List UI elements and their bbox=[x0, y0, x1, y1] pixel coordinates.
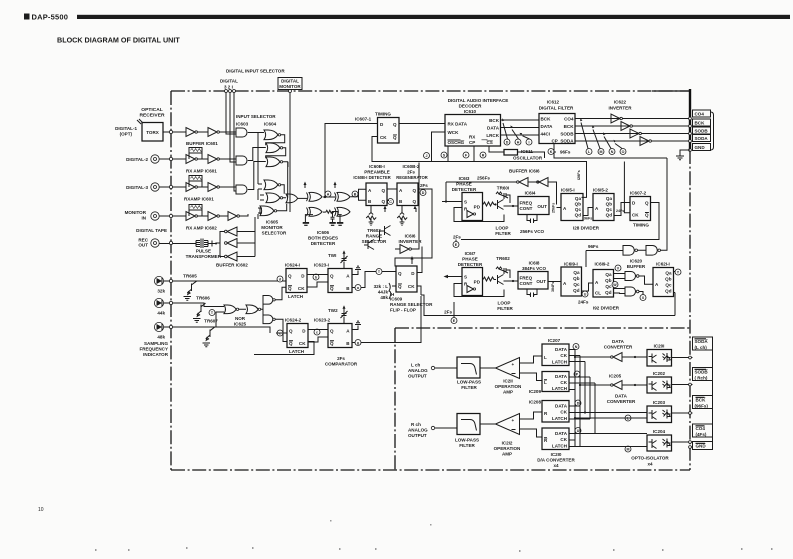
nand gate 96fs 1 bbox=[623, 246, 634, 256]
svg-text:TR606: TR606 bbox=[196, 296, 210, 301]
svg-text:IC208: IC208 bbox=[529, 400, 542, 405]
svg-text:DIGITAL FILTER: DIGITAL FILTER bbox=[539, 106, 574, 111]
svg-text:SODB: SODB bbox=[560, 132, 574, 137]
node V bbox=[615, 265, 621, 271]
svg-text:INPUT SELECTOR: INPUT SELECTOR bbox=[236, 114, 276, 119]
svg-text:IC6I9-I: IC6I9-I bbox=[564, 262, 578, 267]
border top last dash solid bbox=[652, 90, 690, 92]
svg-text:IC624-2: IC624-2 bbox=[285, 318, 302, 323]
label GND bbox=[693, 144, 711, 151]
arrow ref D bbox=[503, 123, 508, 139]
svg-text:Q: Q bbox=[393, 122, 397, 127]
inverter 3 bbox=[630, 129, 639, 138]
and gate IC603 a bbox=[236, 128, 247, 137]
node c bbox=[314, 329, 320, 335]
svg-text:96Fs: 96Fs bbox=[560, 150, 571, 155]
svg-text:PD: PD bbox=[474, 205, 481, 210]
svg-text:44CI: 44CI bbox=[541, 132, 551, 137]
selector output node wire to right bbox=[298, 197, 307, 199]
wire tr601 to ic614 bbox=[504, 205, 519, 207]
svg-text:ANALOG: ANALOG bbox=[408, 368, 428, 373]
svg-text:REGENERATOR: REGENERATOR bbox=[396, 175, 428, 180]
svg-text:FILTER: FILTER bbox=[497, 306, 513, 311]
svg-text:D: D bbox=[506, 140, 509, 144]
svg-text:CO4: CO4 bbox=[564, 117, 574, 122]
svg-text:L: L bbox=[544, 380, 547, 385]
svg-text:LATCH: LATCH bbox=[552, 444, 567, 449]
buffer triangle b1 left bbox=[519, 178, 528, 187]
svg-text:D: D bbox=[577, 401, 580, 405]
transistor TR607 bbox=[209, 330, 211, 338]
wires conv2 bbox=[580, 384, 647, 386]
bus verticals latch to optos bbox=[569, 350, 595, 447]
svg-text:IC205: IC205 bbox=[609, 374, 622, 379]
wire D input from selector bbox=[325, 124, 378, 198]
wire ic608-1 q to ic608-2 bbox=[387, 189, 397, 201]
svg-text:CO4: CO4 bbox=[695, 112, 705, 117]
svg-text:N: N bbox=[575, 345, 578, 349]
svg-text:SODA: SODA bbox=[695, 339, 709, 344]
IC624-2 box bbox=[287, 324, 308, 348]
svg-text:d: d bbox=[279, 277, 281, 281]
svg-text:Q: Q bbox=[288, 274, 292, 279]
svg-text:SODA: SODA bbox=[695, 136, 709, 141]
supply arrows ic606 bbox=[305, 184, 335, 188]
svg-text:IC207: IC207 bbox=[548, 338, 561, 343]
svg-text:IC612: IC612 bbox=[547, 100, 560, 105]
svg-text:Qc: Qc bbox=[606, 207, 613, 212]
svg-text:DETECTER: DETECTER bbox=[458, 262, 483, 267]
svg-text:OUT: OUT bbox=[537, 204, 547, 209]
svg-text:384Fs VCO: 384Fs VCO bbox=[522, 266, 546, 271]
svg-text:SODB: SODB bbox=[695, 370, 709, 375]
svg-text:Q: Q bbox=[645, 213, 649, 218]
IC609 box bbox=[396, 266, 417, 292]
svg-text:TWI: TWI bbox=[328, 253, 336, 258]
svg-text:OUTPUT: OUTPUT bbox=[408, 374, 427, 379]
nand gate ic620 b bbox=[625, 287, 636, 296]
node D3 bbox=[575, 400, 581, 406]
wire 619-1 to 619-2 bbox=[582, 283, 594, 291]
IC618 box bbox=[518, 272, 548, 290]
svg-text:IC2I2: IC2I2 bbox=[502, 441, 513, 446]
svg-text:2Fs: 2Fs bbox=[407, 170, 415, 175]
label BCK bbox=[693, 119, 711, 126]
label BCK 96Fs bbox=[693, 396, 713, 409]
svg-text:IC2II: IC2II bbox=[503, 379, 513, 384]
svg-text:DATA: DATA bbox=[487, 126, 500, 131]
cap under ic614 bbox=[527, 215, 537, 224]
oscillator IC611 resistor bbox=[504, 150, 518, 156]
svg-text:IC6I6: IC6I6 bbox=[405, 234, 416, 239]
op amp IC211 bbox=[496, 358, 520, 379]
buffer IC602 triangle 3 (left pointing) bbox=[227, 252, 237, 261]
small or gate output bbox=[286, 194, 298, 203]
svg-text:LOOP: LOOP bbox=[496, 226, 509, 231]
node U2 bbox=[575, 428, 581, 434]
svg-text:BCK: BCK bbox=[564, 124, 575, 129]
overline marks bbox=[288, 135, 706, 443]
xor gate 2 bbox=[335, 192, 351, 201]
IC607-2 box bbox=[630, 197, 651, 221]
svg-text:K: K bbox=[550, 150, 553, 154]
2fs wire lower bbox=[453, 302, 455, 317]
svg-text:RANGE: RANGE bbox=[366, 234, 382, 239]
svg-text:Q: Q bbox=[289, 329, 293, 334]
and gate c bbox=[263, 296, 273, 305]
rx amp 1 feedback resistor bbox=[189, 148, 202, 154]
svg-text:TR60I: TR60I bbox=[497, 186, 509, 191]
output bus SODB bbox=[575, 133, 690, 135]
svg-text:CK: CK bbox=[632, 213, 639, 218]
svg-text:CP: CP bbox=[469, 140, 475, 145]
monitor selector gate 3 bbox=[260, 206, 274, 216]
svg-text:32k: 32k bbox=[157, 289, 165, 294]
wire latch2 ck loop bbox=[254, 342, 314, 355]
svg-text:IC204: IC204 bbox=[653, 429, 666, 434]
long 128fs line bbox=[372, 162, 587, 198]
nor gate IC604 3 bbox=[266, 157, 280, 167]
svg-text:AMP: AMP bbox=[503, 390, 513, 395]
IC624-1 box bbox=[286, 269, 307, 293]
svg-text:OPTICAL: OPTICAL bbox=[141, 107, 162, 113]
svg-text:CK: CK bbox=[408, 284, 415, 289]
monitor selector gate 2 bbox=[266, 193, 280, 203]
rx amp IC601 triangle pair row3 bbox=[186, 183, 195, 192]
svg-text:BUFFER IC6I6: BUFFER IC6I6 bbox=[509, 169, 540, 174]
opto ic204 internals bbox=[649, 439, 671, 449]
wire CP down to 96fs line bbox=[554, 144, 667, 159]
node A bbox=[325, 191, 331, 197]
svg-text:Q: Q bbox=[330, 286, 334, 291]
svg-text:2Fs: 2Fs bbox=[337, 356, 345, 361]
svg-text:IC60B-I DETECTER: IC60B-I DETECTER bbox=[353, 175, 390, 180]
svg-text:BCK: BCK bbox=[541, 117, 552, 122]
wire 44k bbox=[164, 303, 224, 307]
low-pass filter 2 box bbox=[457, 414, 480, 435]
svg-text:PREAMBLE: PREAMBLE bbox=[364, 170, 390, 175]
svg-text:DIGITAL-3: DIGITAL-3 bbox=[126, 185, 148, 190]
svg-text:GND: GND bbox=[695, 145, 706, 150]
svg-text:DATA: DATA bbox=[555, 404, 568, 409]
svg-text:D/A CONVERTER: D/A CONVERTER bbox=[537, 458, 575, 463]
DIGITAL-2 connector bbox=[151, 155, 159, 163]
wire IC603a to IC604 bbox=[248, 132, 264, 134]
ic620 wires bbox=[614, 274, 654, 295]
svg-text:Qc: Qc bbox=[573, 282, 580, 287]
monitor vertical bbox=[289, 93, 291, 213]
svg-text:CO4: CO4 bbox=[696, 426, 706, 431]
svg-text:CK: CK bbox=[560, 437, 567, 442]
wire 48k bbox=[164, 326, 210, 328]
svg-text:OSCHG: OSCHG bbox=[448, 140, 465, 145]
svg-text:DIGITAL-2: DIGITAL-2 bbox=[126, 157, 148, 162]
svg-text:DIGITAL: DIGITAL bbox=[281, 79, 299, 84]
svg-text:MONITOR: MONITOR bbox=[261, 225, 283, 230]
wire 32k bbox=[164, 280, 286, 282]
nand gate ic620 a bbox=[625, 272, 636, 281]
node K bbox=[548, 149, 554, 155]
selector output vertical bbox=[283, 162, 288, 198]
svg-text:CK: CK bbox=[299, 341, 306, 346]
svg-text:C: C bbox=[389, 200, 392, 204]
svg-text:TR603: TR603 bbox=[367, 228, 381, 233]
svg-text:TIMING: TIMING bbox=[375, 112, 391, 117]
svg-text:Qd: Qd bbox=[573, 288, 580, 293]
svg-text:Qa: Qa bbox=[573, 270, 580, 275]
wire ic608-2 q out bbox=[395, 189, 432, 266]
IC619-2 box bbox=[593, 270, 614, 298]
svg-text:LOW-PASS: LOW-PASS bbox=[457, 380, 481, 385]
svg-text:Qd: Qd bbox=[606, 213, 613, 218]
border left bbox=[170, 91, 172, 470]
svg-text:RX: RX bbox=[469, 135, 475, 140]
wire 48k to latch2 bbox=[210, 327, 287, 333]
svg-text:DATA: DATA bbox=[555, 347, 568, 352]
svg-text:Qb: Qb bbox=[573, 276, 580, 281]
svg-text:TRANSFORMER: TRANSFORMER bbox=[186, 254, 222, 259]
svg-text:TW2: TW2 bbox=[328, 308, 338, 313]
wire CS to oscillator bbox=[489, 146, 504, 152]
svg-text:PHASE: PHASE bbox=[456, 182, 472, 187]
IC608-2 box bbox=[397, 183, 418, 206]
svg-text:Q: Q bbox=[381, 188, 385, 193]
svg-text:24Fs: 24Fs bbox=[616, 209, 624, 213]
tr601 rc top bbox=[496, 192, 510, 203]
svg-text:RX DATA: RX DATA bbox=[448, 122, 468, 127]
svg-text:IN: IN bbox=[141, 216, 146, 221]
svg-text:Q: Q bbox=[398, 284, 402, 289]
ground 623-2 bbox=[352, 321, 361, 329]
label CO4 bbox=[693, 110, 711, 117]
svg-text:TIMING: TIMING bbox=[633, 223, 649, 228]
IC613 phase detector box bbox=[462, 193, 483, 221]
svg-text:Qb: Qb bbox=[606, 202, 613, 207]
REC OUT connector bbox=[151, 239, 159, 247]
svg-text:OUTPUT: OUTPUT bbox=[408, 433, 427, 438]
svg-text:c: c bbox=[316, 330, 318, 334]
svg-text:256Fs: 256Fs bbox=[552, 203, 556, 213]
svg-text:LATCH: LATCH bbox=[552, 360, 567, 365]
svg-text:CL: CL bbox=[595, 291, 601, 296]
svg-text:LATCH: LATCH bbox=[552, 386, 567, 391]
svg-text:48k: 48k bbox=[157, 335, 165, 340]
svg-text:BUFFER IC601: BUFFER IC601 bbox=[186, 141, 218, 146]
nodes on border bbox=[225, 90, 228, 93]
svg-text:INVERTER: INVERTER bbox=[609, 106, 633, 111]
svg-text:Qc: Qc bbox=[605, 284, 612, 289]
nor gate a bbox=[224, 305, 236, 314]
node on border bbox=[169, 130, 172, 133]
rx amp IC601 triangle pair row2 bbox=[186, 155, 195, 164]
svg-text:Qa: Qa bbox=[575, 196, 582, 201]
arrow ref M bbox=[593, 130, 600, 149]
TORX box bbox=[142, 123, 163, 142]
xor gate 1 bbox=[307, 192, 323, 201]
svg-text:M: M bbox=[627, 447, 630, 451]
opto IC201 box bbox=[647, 350, 672, 367]
svg-text:DIGITAL-1: DIGITAL-1 bbox=[115, 126, 137, 131]
wire 621 out bottom bbox=[421, 295, 675, 316]
svg-text:IC203: IC203 bbox=[653, 400, 666, 405]
LED 48k bbox=[154, 322, 163, 331]
svg-text:IC6I5-2: IC6I5-2 bbox=[593, 188, 608, 193]
nor gate IC604 2 bbox=[266, 143, 280, 153]
nor gate b bbox=[246, 305, 258, 314]
svg-text:NOR: NOR bbox=[235, 316, 246, 321]
wire opto outputs to border bbox=[672, 358, 693, 448]
svg-text:LATCH: LATCH bbox=[552, 416, 567, 421]
node dots on border bbox=[689, 117, 692, 120]
svg-text:RANGE SELECTOR: RANGE SELECTOR bbox=[390, 302, 433, 307]
svg-text:OPTO-ISOLATOR: OPTO-ISOLATOR bbox=[631, 456, 669, 461]
svg-text:LATCH: LATCH bbox=[289, 349, 304, 354]
svg-text:44k: 44k bbox=[157, 311, 165, 316]
rx amp IC602 feedback resistor bbox=[189, 205, 202, 211]
svg-text:256Fs VCO: 256Fs VCO bbox=[520, 229, 544, 234]
and gate d bbox=[263, 315, 273, 324]
svg-text:CONT: CONT bbox=[520, 206, 533, 211]
torx input squiggle bbox=[137, 119, 143, 124]
svg-text:W: W bbox=[613, 283, 617, 287]
svg-text:IC623-I: IC623-I bbox=[314, 263, 329, 268]
svg-text:S: S bbox=[464, 200, 467, 205]
node a bbox=[355, 285, 361, 291]
svg-text:U: U bbox=[584, 292, 587, 296]
svg-text:IC625: IC625 bbox=[234, 322, 247, 327]
svg-text:Q: Q bbox=[381, 199, 385, 204]
wires 624-1 to 623-1 bbox=[307, 275, 328, 288]
svg-text:LATCH: LATCH bbox=[288, 294, 303, 299]
IC608-1 box bbox=[366, 183, 387, 206]
svg-text:Q: Q bbox=[330, 341, 334, 346]
svg-text:BCK: BCK bbox=[695, 121, 706, 126]
opto IC202 box bbox=[647, 377, 672, 393]
svg-text:DATA: DATA bbox=[555, 374, 568, 379]
wire oscillator to ic612 bbox=[518, 152, 545, 158]
svg-text:Qb: Qb bbox=[665, 277, 672, 282]
inverter 4 bbox=[640, 137, 649, 146]
svg-text:SODB: SODB bbox=[695, 129, 709, 134]
svg-text:DETECTER: DETECTER bbox=[452, 187, 477, 192]
svg-text:Q: Q bbox=[412, 199, 416, 204]
transistor TR601 bbox=[498, 194, 509, 210]
svg-text:DATA: DATA bbox=[615, 394, 628, 399]
svg-text:2Fs: 2Fs bbox=[420, 183, 428, 188]
node U bbox=[582, 291, 588, 297]
opto IC204 box bbox=[647, 435, 672, 451]
ground 623-1 bbox=[352, 266, 361, 274]
svg-text:CK: CK bbox=[298, 286, 305, 291]
svg-text:S: S bbox=[464, 275, 467, 280]
header bar bbox=[77, 15, 790, 19]
xor gate 4 bbox=[335, 207, 351, 216]
svg-text:IC6I3: IC6I3 bbox=[459, 176, 470, 181]
svg-text:IC6I8: IC6I8 bbox=[529, 261, 540, 266]
svg-text:BUFFER: BUFFER bbox=[627, 264, 646, 269]
svg-text:IC6I9-2: IC6I9-2 bbox=[595, 262, 610, 267]
node N2 bbox=[573, 344, 579, 350]
svg-text:g: g bbox=[357, 341, 359, 345]
svg-text:384Fs: 384Fs bbox=[551, 282, 555, 292]
monitor selector gate 1 bbox=[264, 180, 278, 190]
tr606 ground bbox=[193, 319, 201, 323]
svg-text:DETECTER: DETECTER bbox=[311, 241, 336, 246]
wire E to latch L bbox=[541, 355, 543, 357]
svg-text:IC623-2: IC623-2 bbox=[314, 318, 331, 323]
pulse transformer bbox=[196, 241, 212, 247]
svg-text:+: + bbox=[512, 418, 515, 423]
svg-text:Q: Q bbox=[398, 271, 402, 276]
svg-text:IC607-2: IC607-2 bbox=[630, 191, 647, 196]
wire OSCHG down bbox=[447, 146, 449, 162]
node d bbox=[277, 276, 283, 282]
label GND low bbox=[693, 442, 713, 450]
IC615-1 box bbox=[561, 194, 583, 221]
svg-text:U: U bbox=[577, 429, 580, 433]
svg-text:IC620: IC620 bbox=[630, 259, 643, 264]
label SODA bbox=[693, 135, 711, 142]
svg-text:2Fs: 2Fs bbox=[444, 310, 452, 315]
svg-text:256Fs: 256Fs bbox=[477, 176, 490, 181]
R output node bbox=[431, 426, 434, 429]
svg-text:Qa: Qa bbox=[606, 196, 613, 201]
caps under ic608 bbox=[366, 206, 376, 226]
svg-text:32k : L: 32k : L bbox=[374, 284, 389, 289]
IC610 box bbox=[445, 115, 501, 147]
border right solid thick bbox=[689, 89, 691, 151]
svg-text:(4Fs): (4Fs) bbox=[696, 432, 707, 437]
buffer IC602 triangle 1 (left pointing) bbox=[227, 227, 237, 236]
caps and grounds ic606 bbox=[331, 212, 335, 222]
logo square bbox=[24, 14, 30, 20]
label SODB bbox=[693, 127, 711, 134]
svg-text:IC603: IC603 bbox=[236, 122, 249, 127]
node X bbox=[640, 295, 646, 301]
svg-text:MONITOR: MONITOR bbox=[279, 84, 301, 89]
IC208 box bbox=[542, 401, 569, 423]
junction pd bbox=[494, 203, 496, 205]
IC623-2 box bbox=[328, 324, 352, 348]
svg-text:DIGITAL: DIGITAL bbox=[220, 79, 238, 84]
svg-text:FREQ: FREQ bbox=[520, 276, 533, 281]
arrow ref N bbox=[604, 137, 611, 149]
IC612 box bbox=[539, 114, 575, 144]
wires 624-2 to 623-2 bbox=[308, 330, 328, 343]
node g bbox=[355, 340, 361, 346]
svg-text:Q: Q bbox=[393, 135, 397, 140]
node F bbox=[463, 152, 469, 158]
wires into ic608-1 bbox=[351, 189, 367, 200]
svg-text:FILTER: FILTER bbox=[459, 443, 475, 448]
internal buffer ic617 bbox=[467, 286, 474, 293]
svg-text:OPERATION: OPERATION bbox=[494, 446, 521, 451]
svg-text:BOTH EDGES: BOTH EDGES bbox=[308, 236, 338, 241]
ic606 wires bbox=[305, 197, 341, 222]
wire 623-2 b out to ic609 ck bbox=[352, 296, 421, 343]
svg-text:I28Fs: I28Fs bbox=[577, 170, 581, 180]
wires BCK DATA LRCK to IC612 bbox=[501, 120, 540, 135]
node L3 bbox=[625, 415, 631, 421]
svg-text:IC607-1: IC607-1 bbox=[355, 117, 372, 122]
svg-text:PD: PD bbox=[474, 280, 481, 285]
svg-text:96Fs: 96Fs bbox=[588, 244, 599, 249]
rx amp IC602 triangles row4 bbox=[186, 212, 195, 221]
junction dots bus bbox=[574, 356, 576, 358]
wires to opto rows bbox=[575, 413, 647, 447]
IC617 box bbox=[462, 268, 483, 296]
svg-text:CONT: CONT bbox=[520, 281, 533, 286]
